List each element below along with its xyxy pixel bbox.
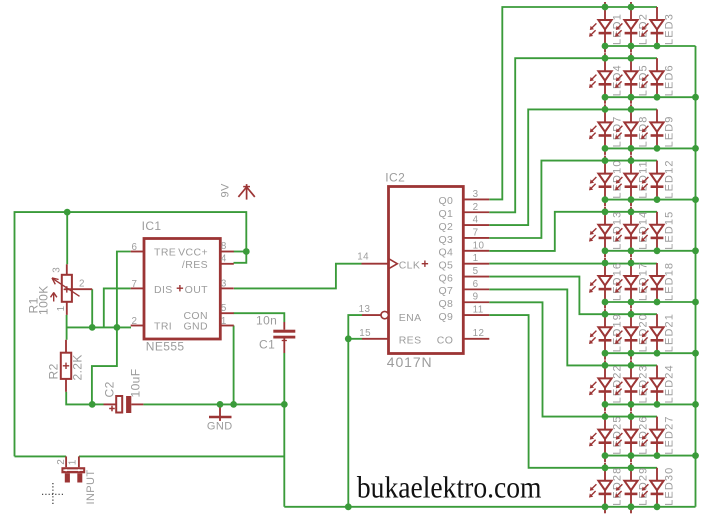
svg-text:2: 2 (56, 459, 67, 465)
svg-text:1: 1 (68, 459, 79, 465)
svg-text:OUT: OUT (185, 284, 209, 296)
svg-text:LED22: LED22 (611, 364, 623, 403)
svg-text:9V: 9V (220, 183, 232, 198)
svg-text:3: 3 (221, 278, 227, 289)
svg-text:LED10: LED10 (611, 159, 623, 198)
svg-text:C2: C2 (103, 381, 117, 397)
svg-text:10uF: 10uF (129, 369, 143, 398)
svg-text:Q3: Q3 (438, 234, 453, 246)
svg-text:LED21: LED21 (663, 313, 675, 352)
svg-text:6: 6 (131, 242, 137, 253)
svg-text:Q5: Q5 (438, 259, 453, 271)
svg-text:12: 12 (473, 328, 485, 339)
svg-text:2: 2 (131, 316, 137, 327)
svg-text:4: 4 (473, 215, 479, 226)
svg-text:2: 2 (473, 202, 479, 213)
svg-text:13: 13 (359, 304, 371, 315)
svg-text:LED26: LED26 (637, 415, 649, 454)
svg-text:Q8: Q8 (438, 298, 453, 310)
svg-text:LED15: LED15 (663, 211, 675, 250)
svg-text:LED18: LED18 (663, 262, 675, 301)
svg-text:LED20: LED20 (637, 313, 649, 352)
svg-text:4: 4 (221, 254, 227, 265)
svg-text:LED28: LED28 (611, 467, 623, 506)
svg-text:RES: RES (399, 335, 422, 347)
svg-text:LED27: LED27 (663, 415, 675, 454)
svg-text:Q9: Q9 (438, 311, 453, 323)
svg-text:1: 1 (221, 316, 227, 327)
svg-text:Q2: Q2 (438, 221, 453, 233)
svg-text:LED6: LED6 (663, 64, 675, 96)
svg-text:LED17: LED17 (637, 262, 649, 301)
svg-text:3: 3 (473, 189, 479, 200)
svg-text:C1: C1 (259, 338, 275, 352)
svg-text:1: 1 (473, 253, 479, 264)
svg-text:2.2K: 2.2K (71, 354, 85, 380)
svg-text:8: 8 (221, 241, 227, 252)
svg-text:Q7: Q7 (438, 285, 453, 297)
svg-text:ENA: ENA (399, 312, 422, 324)
svg-text:GND: GND (207, 420, 233, 432)
svg-text:10n: 10n (256, 314, 277, 328)
svg-text:LED14: LED14 (637, 211, 649, 250)
svg-text:100K: 100K (37, 285, 51, 315)
svg-text:DIS: DIS (154, 284, 173, 296)
svg-text:9: 9 (473, 292, 479, 303)
svg-text:Q6: Q6 (438, 272, 453, 284)
svg-text:5: 5 (473, 266, 479, 277)
svg-text:14: 14 (357, 252, 369, 263)
svg-text:Q4: Q4 (438, 247, 453, 259)
svg-text:LED3: LED3 (663, 13, 675, 45)
svg-text:IC2: IC2 (385, 170, 405, 184)
svg-text:CO: CO (437, 335, 454, 347)
svg-text:15: 15 (359, 328, 371, 339)
svg-text:LED9: LED9 (663, 115, 675, 147)
svg-text:Q0: Q0 (438, 195, 453, 207)
svg-text:11: 11 (473, 305, 484, 316)
svg-text:7: 7 (473, 227, 479, 238)
svg-text:2: 2 (79, 279, 85, 290)
svg-text:IC1: IC1 (142, 219, 162, 233)
svg-text:10: 10 (473, 240, 485, 251)
svg-text:4017N: 4017N (387, 354, 433, 370)
svg-text:GND: GND (183, 321, 208, 333)
svg-text:LED12: LED12 (663, 159, 675, 198)
svg-text:Q1: Q1 (438, 208, 453, 220)
svg-text:NE555: NE555 (146, 340, 185, 354)
svg-text:LED23: LED23 (637, 364, 649, 403)
svg-text:LED24: LED24 (663, 364, 675, 403)
svg-text:/RES: /RES (182, 259, 208, 271)
svg-text:1: 1 (56, 305, 67, 311)
svg-text:VCC+: VCC+ (178, 247, 208, 259)
svg-text:LED11: LED11 (637, 160, 649, 198)
svg-text:6: 6 (473, 279, 479, 290)
svg-text:LED19: LED19 (611, 313, 623, 352)
svg-text:7: 7 (131, 279, 137, 290)
svg-text:LED16: LED16 (611, 262, 623, 301)
svg-text:INPUT: INPUT (85, 470, 97, 505)
svg-text:TRI: TRI (154, 321, 172, 333)
svg-text:LED29: LED29 (637, 467, 649, 506)
svg-text:5: 5 (221, 303, 227, 314)
svg-text:bukaelektro.com: bukaelektro.com (357, 471, 542, 504)
svg-text:R2: R2 (47, 363, 61, 379)
svg-text:TRE: TRE (154, 247, 176, 259)
svg-text:LED13: LED13 (611, 211, 623, 250)
svg-text:LED25: LED25 (611, 415, 623, 454)
svg-text:CLK: CLK (399, 260, 421, 272)
svg-text:LED30: LED30 (663, 467, 675, 506)
svg-text:3: 3 (52, 267, 63, 273)
